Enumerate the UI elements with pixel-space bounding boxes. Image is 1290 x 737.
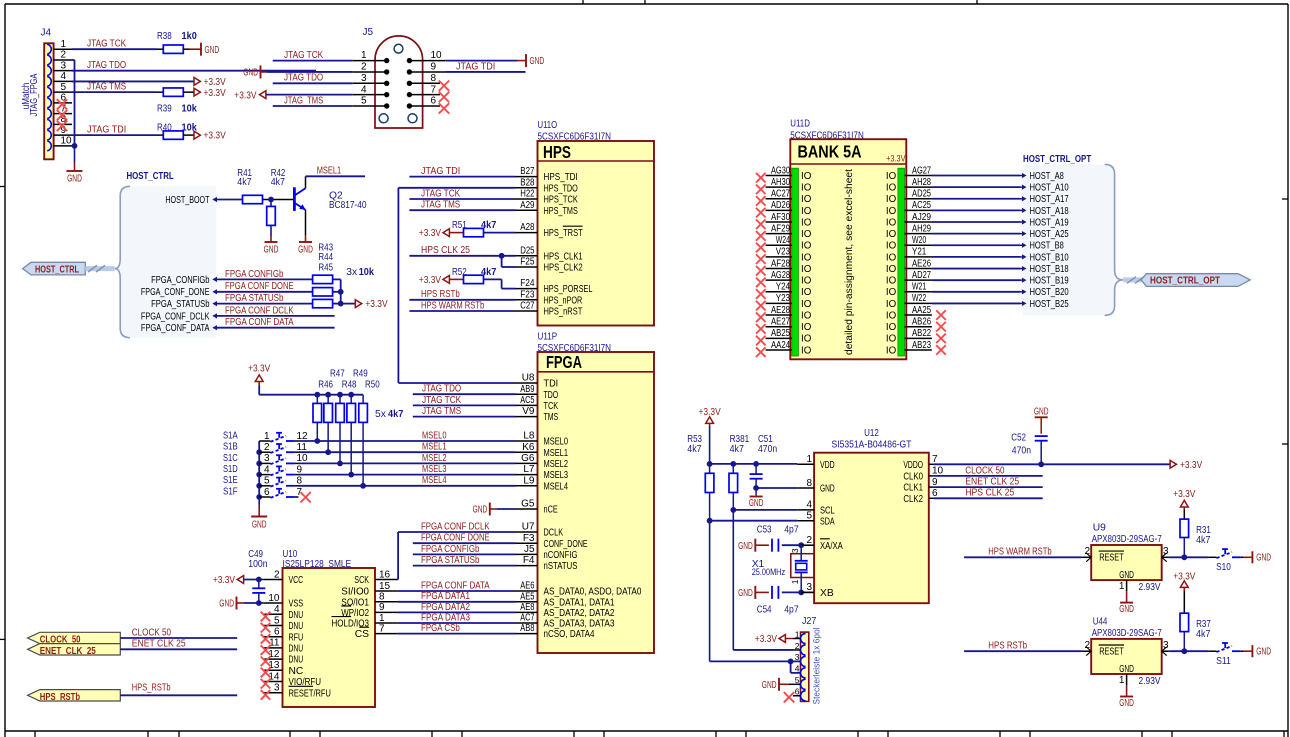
connector J4 body [44,43,53,159]
wire J5 pin10 to ground [445,60,517,62]
wire ENET_CLK_25 from CLK1 [934,477,1043,488]
svg-text:R39: R39 [157,104,172,115]
svg-text:HOST_CTRL_OPT: HOST_CTRL_OPT [1023,154,1092,165]
svg-text:HOST_A25: HOST_A25 [1030,229,1069,240]
ic U11D rotated note text [844,169,855,355]
power +3.3V at J5 pin4 [234,90,352,101]
wire HPS_CLK_25 from CLK2 [934,488,1043,499]
wire FPGA_CONF_DATA stub from harness [217,317,335,328]
svg-text:A28: A28 [520,222,535,233]
svg-text:JTAG TDI: JTAG TDI [87,125,126,136]
wire HOST_B10 [932,256,1021,258]
ic U12 body [814,453,929,604]
svg-text:AH30: AH30 [771,177,790,188]
harness HOST_CTRL_OPT entries [1021,171,1069,310]
svg-text:IO: IO [801,183,812,194]
svg-text:1: 1 [806,454,812,465]
svg-text:HPS RSTb: HPS RSTb [421,289,460,300]
svg-text:GND: GND [205,45,220,56]
svg-text:+3.3V: +3.3V [1173,489,1195,500]
wire HPS_TDO down to FPGA TDI [398,188,515,383]
svg-text:SDA: SDA [820,516,835,527]
svg-text:V23: V23 [776,247,791,258]
svg-text:MSEL2: MSEL2 [544,459,569,470]
net flag ENET_CLK_25 [28,639,238,657]
svg-text:4k7: 4k7 [237,177,252,188]
svg-text:FPGA CONF DONE: FPGA CONF DONE [225,281,294,292]
svg-text:FPGA_CONF_DONE: FPGA_CONF_DONE [141,287,210,298]
wire C51 junction to U12 GND pin8 [756,487,797,489]
svg-text:+3.3V: +3.3V [755,634,777,645]
connector J27 designator [802,616,817,627]
svg-text:FPGA DATA3: FPGA DATA3 [421,612,470,623]
svg-text:+3.3V: +3.3V [419,275,441,286]
svg-text:SO/IO1: SO/IO1 [341,597,369,608]
svg-text:AG27: AG27 [912,165,931,176]
svg-text:W22: W22 [912,293,927,304]
svg-text:FPGA STATUSb: FPGA STATUSb [421,555,480,566]
svg-text:IO: IO [886,183,897,194]
svg-text:IO: IO [886,252,897,263]
svg-text:AA25: AA25 [912,305,931,316]
svg-text:AH29: AH29 [912,223,931,234]
svg-text:3x: 3x [346,267,358,278]
ic U12 right pin stubs and numbers [929,454,944,499]
harness link to HOST_CTRL_OPT flag [1123,277,1144,284]
svg-text:5x: 5x [375,409,387,420]
svg-text:JTAG_FPGA: JTAG_FPGA [29,73,40,116]
connector J5 body [375,36,423,128]
wire HPS_CLK_25 to HPS_CLK1 and HPS_CLK2 [409,245,515,267]
svg-text:F24: F24 [520,278,535,289]
wire FPGA_CONF_DONE to R44 [217,281,313,292]
wire J4 pin2 to pin10 vertical to ground [72,60,78,149]
svg-text:ENET CLK 25: ENET CLK 25 [965,477,1019,488]
svg-text:+3.3V: +3.3V [1173,571,1195,582]
svg-text:AJ29: AJ29 [912,212,931,223]
harness HOST_CTRL_OPT title [1023,154,1092,165]
svg-text:IO: IO [886,264,897,275]
svg-text:4: 4 [361,84,367,95]
switch S1A [223,430,308,441]
svg-text:AC5: AC5 [520,395,535,406]
ic U11P FPGA body [538,352,655,653]
svg-text:IO: IO [801,334,812,345]
svg-text:HPS_CLK1: HPS_CLK1 [544,251,583,262]
svg-text:SI/IO0: SI/IO0 [341,587,369,598]
wire JTAG_TDI to HPS_TDI [409,166,515,177]
svg-text:CLOCK 50: CLOCK 50 [965,465,1004,476]
svg-text:IO: IO [886,171,897,182]
svg-text:MSEL3: MSEL3 [544,470,569,481]
ic U11D left pins with no-connect X marks [756,165,792,357]
svg-text:5: 5 [264,476,270,487]
svg-text:SI5351A-B04486-GT: SI5351A-B04486-GT [832,440,912,451]
svg-text:AC27: AC27 [771,189,790,200]
connector J4 pin stubs and numbers [54,39,72,147]
svg-text:R51: R51 [452,220,467,231]
svg-text:FPGA CONF DCLK: FPGA CONF DCLK [421,521,490,532]
no-connect X marks J4 pins 6 7 8 [57,99,67,131]
svg-text:GND: GND [1119,570,1134,581]
ic U9 pin 1 to ground [1119,580,1134,615]
svg-text:V9: V9 [522,406,535,417]
svg-text:FPGA STATUSb: FPGA STATUSb [225,293,284,304]
svg-text:IO: IO [801,217,812,228]
wire HOST_B18 [932,268,1021,270]
svg-text:C54: C54 [757,605,772,616]
svg-text:CS: CS [355,629,369,640]
wires R46-R50 down to MSEL nets [314,422,366,488]
ic U11P designator and part number [538,332,612,354]
svg-text:HOST_A8: HOST_A8 [1030,171,1064,182]
svg-text:J5: J5 [363,27,374,38]
ground at J5 pin2 [243,65,352,78]
svg-text:JTAG TCK: JTAG TCK [422,395,461,406]
svg-text:F4: F4 [523,555,535,566]
svg-text:4k7: 4k7 [388,409,404,420]
svg-text:IO: IO [801,310,812,321]
svg-text:JTAG TDI: JTAG TDI [456,61,495,72]
wire JTAG_TCK to J5 pin1 [273,50,353,61]
svg-text:DNU: DNU [289,655,304,666]
ic U11O pin names [544,172,593,317]
svg-text:L8: L8 [523,431,535,442]
no-connect X marks J5 pins 8 7 6 [439,81,449,114]
svg-text:D25: D25 [520,245,535,256]
wire Q2 collector to MSEL1 [306,166,366,189]
svg-text:BANK 5A: BANK 5A [798,142,862,162]
svg-text:AF28: AF28 [771,258,790,269]
svg-text:S1A: S1A [223,430,238,441]
svg-text:AB22: AB22 [912,328,931,339]
wire FPGA DATA2 [398,602,516,613]
svg-text:10: 10 [268,593,280,604]
svg-text:JTAG TCK: JTAG TCK [87,39,126,50]
svg-text:HOST_A18: HOST_A18 [1030,206,1069,217]
value label 3x 10k [346,267,374,278]
svg-text:AB23: AB23 [912,340,931,351]
svg-text:HOST_B18: HOST_B18 [1030,264,1069,275]
svg-text:+3.3V: +3.3V [248,363,270,374]
svg-text:100n: 100n [248,559,267,570]
svg-text:IO: IO [801,241,812,252]
svg-text:1k0: 1k0 [182,31,198,42]
svg-text:8: 8 [431,73,437,84]
svg-text:IO: IO [801,229,812,240]
svg-text:WP/IO2: WP/IO2 [341,608,369,619]
svg-text:VCC: VCC [289,575,304,586]
svg-text:HOLD/IO3: HOLD/IO3 [332,619,370,630]
wire MSEL0 [299,430,516,441]
wire R43 R44 R45 outputs joined to +3.3V [333,279,356,306]
svg-text:S11: S11 [1216,656,1231,667]
svg-text:FPGA_CONF_DCLK: FPGA_CONF_DCLK [141,311,210,322]
harness HOST_CTRL entries [141,195,217,334]
svg-text:HPS_nRST: HPS_nRST [544,307,583,318]
resistor R42 4k7 (base pulldown) [267,168,286,226]
svg-text:IO: IO [801,171,812,182]
svg-text:FPGA_STATUSb: FPGA_STATUSb [151,299,210,310]
wire XB node to U12 [801,591,814,593]
svg-text:4k7: 4k7 [1196,535,1211,546]
wire FPGA_CONFIGb to R43 [217,269,313,280]
svg-text:+3.3V: +3.3V [886,154,905,164]
svg-text:FPGA_CONF_DATA: FPGA_CONF_DATA [141,323,210,334]
svg-text:IO: IO [886,322,897,333]
svg-text:1: 1 [379,613,385,624]
svg-text:R49: R49 [353,368,368,379]
connector J4 uMatch JTAG_FPGA label [21,73,40,116]
wire SDA from R53 [707,493,798,524]
svg-text:2: 2 [1084,640,1090,651]
wire HOST_A17 [932,198,1021,200]
svg-text:HOST_B20: HOST_B20 [1030,287,1069,298]
svg-text:S1D: S1D [223,464,238,475]
svg-text:U8: U8 [522,373,535,384]
svg-text:MSEL0: MSEL0 [544,437,569,448]
ic U10 left pin stubs and numbers [263,569,282,693]
svg-text:6: 6 [274,627,280,638]
svg-text:2: 2 [61,50,67,61]
power +3.3V at U10 VCC [213,575,264,586]
switch S1B [223,442,307,453]
svg-text:JTAG TDO: JTAG TDO [284,73,323,84]
ic U11P pin stubs and designators [516,373,538,635]
svg-text:AD26: AD26 [771,200,790,211]
svg-text:IO: IO [801,322,812,333]
svg-text:U44: U44 [1093,616,1108,627]
svg-text:RESET: RESET [1099,553,1124,564]
wire JTAG_TDI from J5 pin9 [445,61,525,72]
ic U44 pin 1 to ground [1119,674,1134,709]
svg-text:JTAG TDI: JTAG TDI [421,166,460,177]
svg-text:10k: 10k [359,267,375,278]
svg-text:4k7: 4k7 [481,220,497,231]
svg-text:nCSO, DATA4: nCSO, DATA4 [544,629,595,640]
svg-text:GND: GND [298,245,313,256]
svg-text:AE28: AE28 [771,305,790,316]
svg-text:2: 2 [1084,546,1090,557]
svg-text:GND: GND [1119,698,1134,709]
svg-text:GND: GND [530,56,545,67]
wire SCK to FPGA_CONF_DCLK net [397,532,400,580]
svg-text:1: 1 [61,39,67,50]
svg-text:HOST_B19: HOST_B19 [1030,276,1069,287]
ic U44 designator and part number [1092,616,1162,639]
svg-text:HPS_CLK2: HPS_CLK2 [544,263,583,274]
wire JTAG_TMS to J5 pin5 [273,95,353,106]
svg-text:AG30: AG30 [771,165,790,176]
svg-text:HPS_nPOR: HPS_nPOR [544,295,583,306]
svg-text:FPGA DATA1: FPGA DATA1 [421,591,470,602]
svg-text:3: 3 [274,683,280,694]
crystal X1 25.00MHz [752,545,814,592]
svg-text:S1B: S1B [223,442,238,453]
svg-text:IO: IO [801,287,812,298]
svg-text:IO: IO [886,194,897,205]
no-connect X at J27 pin6 [784,692,801,702]
svg-text:GND: GND [219,599,234,610]
svg-text:Steckerleiste 1x 6pol: Steckerleiste 1x 6pol [812,628,823,705]
svg-text:2.93V: 2.93V [1139,676,1161,687]
svg-text:+3.3V: +3.3V [234,90,256,101]
svg-text:JTAG TCK: JTAG TCK [284,50,323,61]
transistor Q2 BC817-40 [294,187,366,211]
svg-text:+3.3V: +3.3V [204,77,226,88]
harness link to HOST_CTRL flag [85,265,114,272]
svg-text:W20: W20 [912,235,927,246]
ground below C51 [749,495,764,509]
svg-text:MSEL2: MSEL2 [422,453,447,464]
svg-text:10: 10 [431,50,443,61]
ic U10 designator and part number [248,549,351,570]
wire HPS_RSTb to U44 [964,641,1091,652]
svg-text:DCLK: DCLK [544,528,564,539]
svg-text:IO: IO [801,264,812,275]
switch S1D [223,464,303,475]
connector J5 pin pads [384,58,412,109]
svg-text:HPS_TRST: HPS_TRST [544,228,584,239]
capacitor C51 470n [750,434,778,495]
ground at R42 [264,225,279,255]
svg-text:IO: IO [801,194,812,205]
wire XA node to U12 [801,544,814,546]
svg-text:U11P: U11P [538,332,558,343]
wire JTAG_TMS from J4 pin5 to R39 [72,82,157,93]
svg-text:HOST_A19: HOST_A19 [1030,217,1069,228]
resistor R37 4k7 [1180,591,1211,651]
svg-text:JTAG TMS: JTAG TMS [87,82,126,93]
ic U11D designator and part number [790,118,864,141]
net flag CLOCK_50 [28,627,238,645]
svg-text:+3.3V: +3.3V [419,228,441,239]
svg-text:A29: A29 [520,200,535,211]
svg-text:4: 4 [274,604,280,615]
ground at FPGA nCE [473,503,516,516]
svg-text:4: 4 [61,71,67,82]
svg-text:SCK: SCK [354,575,369,586]
ic U11O HPS body [538,141,655,326]
svg-text:JTAG TMS: JTAG TMS [421,200,460,211]
wire JTAG_TMS to HPS_TMS [409,200,515,211]
wire JTAG_TCK to HPS_TCK [409,188,515,199]
svg-text:15: 15 [379,581,391,592]
svg-text:4k7: 4k7 [687,444,702,455]
resistor R52 4k7 [449,267,496,284]
wire FPGA_STATUSb to nSTATUS [413,555,516,566]
svg-text:F25: F25 [520,257,535,268]
resistor R381 4k7 [729,434,749,493]
svg-text:3: 3 [1163,640,1169,651]
wire FPGA_CONF_DCLK to DCLK [398,521,515,532]
svg-text:IO: IO [886,334,897,345]
switch S1E [223,475,303,486]
wire FPGA DATA1 [398,591,516,602]
svg-text:+3.3V: +3.3V [699,407,721,418]
svg-text:ENET CLK 25: ENET CLK 25 [132,639,186,650]
switch S1 left common bus to ground [256,441,262,500]
net flag HPS_RSTb [28,683,238,703]
svg-text:DNU: DNU [289,610,304,621]
svg-text:S1F: S1F [223,486,238,497]
svg-text:1: 1 [264,431,270,442]
svg-text:GND: GND [738,588,753,599]
svg-text:detailed pin-assignment, see e: detailed pin-assignment, see excel-sheet [844,169,855,355]
svg-text:HOST_A17: HOST_A17 [1030,194,1069,205]
power +3.3V above R37 [1173,571,1195,591]
svg-text:AS_DATA2, DATA2: AS_DATA2, DATA2 [544,608,615,619]
svg-text:AS_DATA3, DATA3: AS_DATA3, DATA3 [544,619,615,630]
svg-text:FPGA CONFIGb: FPGA CONFIGb [421,544,480,555]
wire MSEL4 [299,475,516,486]
svg-text:5: 5 [61,82,67,93]
svg-text:MSEL3: MSEL3 [422,464,447,475]
svg-text:R38: R38 [157,31,172,42]
connector J5 left pin stubs and numbers [353,50,387,106]
ic U44 body [1091,639,1162,675]
svg-text:3: 3 [264,453,270,464]
svg-text:HOST_CTRL_OPT: HOST_CTRL_OPT [1150,275,1220,286]
wire U44 output to R37 and S11 [1162,648,1209,654]
wire JTAG_TCK from J4 pin1 to R38 [72,39,157,50]
power +3.3V above R31 [1173,489,1195,509]
svg-text:HOST_BOOT: HOST_BOOT [165,195,210,206]
wire HPS_RSTb to HPS_nPOR [409,289,515,300]
connector J27 label Steckerleiste 1x 6pol [812,628,823,705]
svg-text:1: 1 [361,50,367,61]
ground at R38 [190,43,220,56]
svg-text:2.93V: 2.93V [1139,582,1161,593]
power +3.3V above U12 [699,407,721,425]
wire JTAG_TDO to J5 pin3 [273,73,353,84]
ic U44 output pin 3 arrow [1162,640,1169,656]
ic U11O pin stubs and designators [516,166,538,311]
ground at Q2 emitter [298,235,313,256]
svg-text:NC: NC [289,666,304,677]
svg-text:G6: G6 [521,453,535,464]
svg-text:R46: R46 [318,380,333,391]
svg-text:HPS_TMS: HPS_TMS [544,206,578,217]
resistor R38 1k0 [157,31,197,53]
svg-text:2: 2 [274,569,280,580]
svg-text:R50: R50 [365,380,380,391]
wire SCL to J27 pin2 [733,510,800,650]
svg-text:AB9: AB9 [520,384,535,395]
wire FPGA_STATUSb to R45 [217,293,313,304]
svg-text:3: 3 [790,548,800,553]
svg-text:K6: K6 [522,442,535,453]
svg-text:GND: GND [1256,553,1271,564]
wire FPGA_CONFIGb to nCONFIG [413,544,516,555]
capacitor C53 4p7 [738,525,804,552]
ic U11D right pin stubs and designators [905,165,932,350]
svg-text:H22: H22 [520,189,535,200]
svg-text:HPS WARM RSTb: HPS WARM RSTb [988,547,1051,558]
wire J4 pin4 to +3.3V [72,80,194,82]
wire JTAG_TCK to FPGA TCK [413,395,516,406]
capacitor C49 100n [252,580,265,606]
svg-text:HOST_B8: HOST_B8 [1030,241,1064,252]
svg-text:CLK1: CLK1 [903,483,923,494]
svg-text:AC7: AC7 [520,613,535,624]
ground at J27 pin5 [762,678,801,691]
svg-text:BC817-40: BC817-40 [329,200,367,211]
svg-text:AB8: AB8 [520,623,535,634]
wire HOST_B25 [932,302,1021,304]
svg-text:C53: C53 [757,525,772,536]
svg-text:6: 6 [431,96,437,107]
